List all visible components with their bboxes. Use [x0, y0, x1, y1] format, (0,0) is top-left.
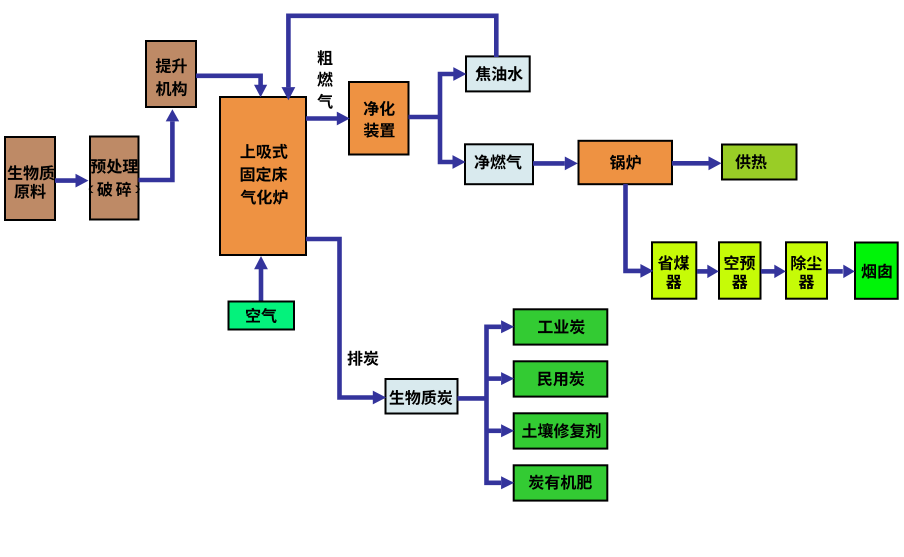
label 除尘 (line1)	[791, 255, 821, 270]
arrowhead →炭有机肥	[501, 476, 514, 489]
box 净化装置	[349, 82, 409, 155]
arrowhead 分汇→净燃气	[453, 155, 466, 169]
label 机构 (box3 line2)	[156, 81, 187, 96]
box 除尘器	[786, 242, 827, 298]
arrowhead →工业炭	[501, 320, 514, 333]
box 上吸式固定床气化炉	[220, 97, 306, 255]
box 烟囱	[855, 243, 898, 299]
arrow 提升机构→气化炉顶	[196, 76, 267, 98]
wire 净化装置→分汇点	[409, 115, 441, 120]
label 提升 (box3 line1)	[156, 58, 187, 73]
label 省煤 (line1)	[658, 255, 689, 270]
label 粗 (vertical 1)	[318, 50, 333, 65]
label 炭有机肥	[529, 475, 592, 490]
wire 焦油水回流环路	[288, 16, 496, 88]
box 净燃气	[465, 144, 533, 184]
arrow 气化炉→生物质炭(排炭)	[306, 239, 386, 404]
box 生物质原料	[5, 137, 55, 220]
arrowhead →土壤修复剂	[501, 424, 514, 437]
box 工业炭	[514, 309, 608, 344]
wire 生物质炭→分支干线	[458, 396, 487, 401]
label 烟囱	[861, 264, 891, 279]
arrow 生物质原料→预处理	[55, 174, 89, 188]
box 炭有机肥	[514, 465, 608, 500]
label 上吸式 (gasifier line1)	[241, 144, 288, 159]
label 器 (空预器 line2)	[732, 275, 747, 289]
arrowhead 回流→气化炉顶	[282, 87, 296, 100]
label 预处理 (box2 line1)	[91, 159, 138, 174]
label 空预 (line1)	[725, 255, 756, 270]
label 锅炉	[610, 155, 641, 170]
wire 四分支干线	[487, 327, 502, 483]
arrowhead →民用炭	[501, 372, 514, 385]
label 生物质炭	[389, 390, 452, 405]
arrow 除尘器→烟囱	[828, 265, 855, 279]
label 器 (除尘器 line2)	[799, 275, 814, 289]
arrow 空预器→除尘器	[761, 265, 786, 279]
arrow 预处理→提升机构	[139, 109, 180, 180]
label 固定床 (gasifier line2)	[241, 167, 288, 182]
box 土壤修复剂	[514, 413, 608, 448]
box 省煤器	[652, 242, 696, 298]
arrow 省煤器→空预器	[697, 265, 719, 279]
wire 分汇点干线	[440, 74, 454, 162]
arrow 气化炉→净化装置(粗燃气)	[306, 112, 350, 126]
box 供热	[722, 145, 797, 180]
box 空气	[229, 302, 295, 330]
box 生物质炭	[386, 379, 458, 414]
arrow 锅炉→省煤器	[626, 184, 654, 278]
arrowhead 分汇→焦油水	[453, 67, 466, 81]
label 供热	[735, 154, 766, 169]
label 器 (省煤器 line2)	[666, 275, 681, 289]
box 焦油水	[466, 56, 530, 91]
label 气化炉 (gasifier line3)	[241, 190, 288, 205]
label 排炭	[348, 351, 379, 366]
label 焦油水	[476, 66, 523, 81]
label 生物质 (box1 line1)	[8, 165, 55, 180]
box 预处理（破碎）	[90, 137, 139, 220]
label 燃 (vertical 2)	[317, 72, 332, 87]
arrow 空气→气化炉底	[254, 256, 268, 301]
wire 分支→民用炭	[487, 376, 502, 381]
box 锅炉	[579, 141, 673, 184]
label 空气	[246, 308, 277, 323]
label （破碎） (box2 line2)	[89, 182, 140, 197]
label 民用炭	[538, 371, 585, 386]
label 气 (vertical 3)	[317, 94, 332, 109]
arrow 净燃气→锅炉	[533, 157, 578, 171]
label 装置 (line2)	[364, 123, 395, 138]
box 空预器	[719, 242, 761, 298]
arrow 锅炉→供热	[672, 156, 722, 170]
label 净化 (line1)	[364, 101, 395, 116]
wire 分支→土壤修复剂	[487, 428, 502, 433]
label 原料 (box1 line2)	[14, 184, 45, 199]
label 净燃气	[475, 154, 522, 169]
label 工业炭	[538, 319, 585, 334]
box 民用炭	[514, 361, 608, 396]
box 提升机构	[146, 41, 196, 107]
label 土壤修复剂	[522, 423, 600, 438]
